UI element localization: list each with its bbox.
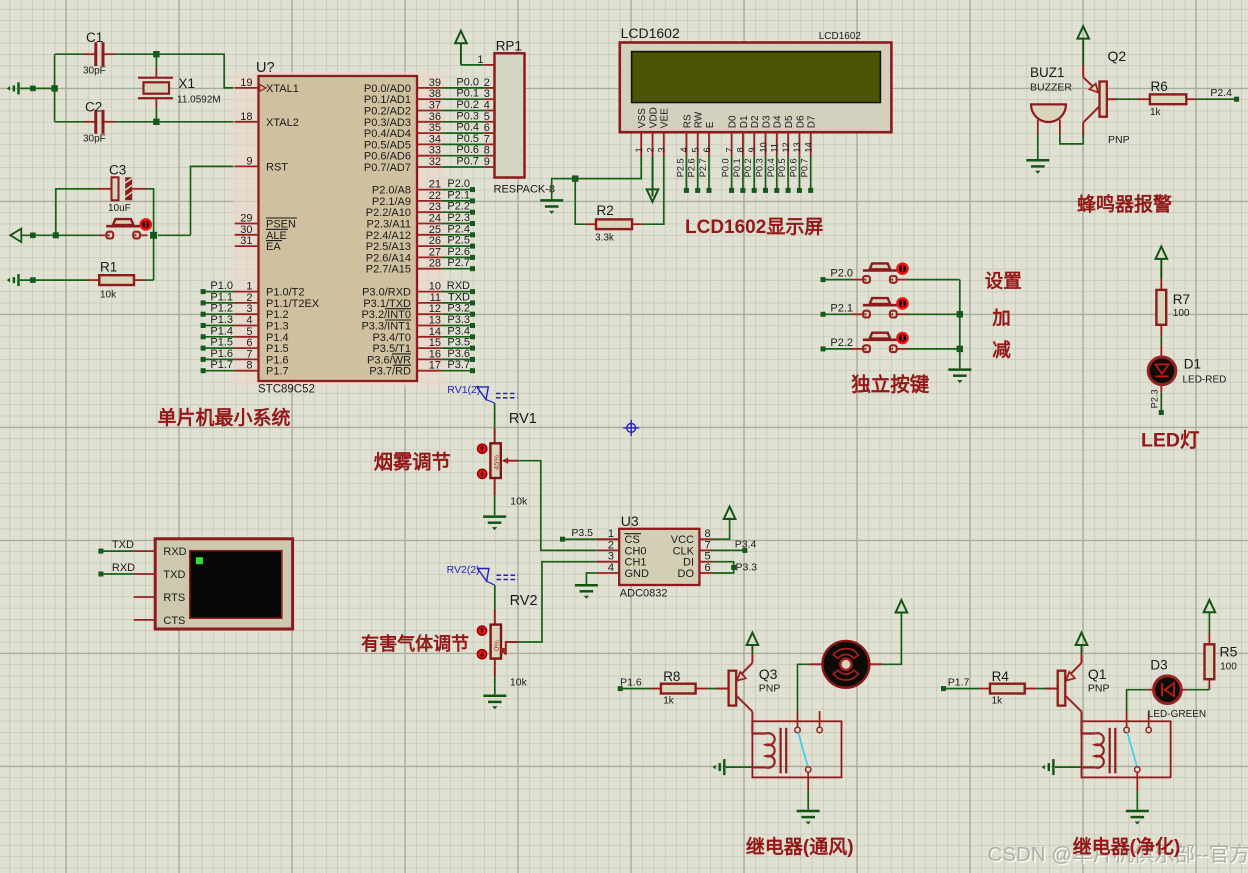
net label RXD (to terminal TXD) xyxy=(98,562,135,576)
svg-text:LCD1602: LCD1602 xyxy=(819,31,862,42)
svg-text:P1.7: P1.7 xyxy=(210,359,233,371)
svg-text:DI: DI xyxy=(683,557,694,569)
svg-text:D3: D3 xyxy=(1150,657,1167,672)
label (set) xyxy=(985,271,1022,292)
svg-text:P3.1/TXD: P3.1/TXD xyxy=(363,298,411,310)
svg-text:31: 31 xyxy=(240,235,252,247)
svg-text:P2.5: P2.5 xyxy=(675,158,685,177)
watermark CSDN xyxy=(988,843,1248,868)
wire xyxy=(707,688,717,690)
svg-text:10k: 10k xyxy=(100,290,117,301)
svg-text:7: 7 xyxy=(705,539,711,551)
ground (RV1) xyxy=(483,517,506,531)
wire xyxy=(1160,336,1162,345)
virtual terminal body xyxy=(155,539,292,629)
wire (D3 to R5) xyxy=(1187,689,1209,691)
wire xyxy=(55,51,235,88)
terminal pin names and stubs xyxy=(134,546,187,627)
svg-text:P1.6: P1.6 xyxy=(210,348,233,360)
terminal (default, left arrow) xyxy=(10,229,21,242)
svg-text:P2.3: P2.3 xyxy=(447,212,470,224)
capacitor C1 xyxy=(83,30,115,77)
net label P3.5 xyxy=(560,527,596,542)
resistor R5 100 xyxy=(1205,633,1238,690)
svg-text:P1.2: P1.2 xyxy=(210,303,233,315)
svg-text:25: 25 xyxy=(429,224,441,236)
wire xyxy=(51,54,57,122)
power +5V (above R5) xyxy=(1204,600,1216,612)
mcu left pin names xyxy=(266,83,320,378)
svg-text:P0.4: P0.4 xyxy=(766,158,776,177)
svg-text:D2: D2 xyxy=(750,115,761,128)
svg-text:P0.7: P0.7 xyxy=(800,158,810,177)
transistor Q3 PNP xyxy=(717,654,781,721)
svg-text:2: 2 xyxy=(645,147,655,152)
svg-text:RP1: RP1 xyxy=(496,39,522,54)
svg-text:10: 10 xyxy=(429,281,441,293)
svg-text:LCD1602: LCD1602 xyxy=(621,25,680,41)
svg-text:P0.3: P0.3 xyxy=(755,158,765,177)
svg-text:E: E xyxy=(705,121,716,128)
wire (motor right to +5V) xyxy=(882,612,901,664)
svg-text:6: 6 xyxy=(246,337,252,349)
svg-text:32: 32 xyxy=(429,156,441,168)
lcd control net labels P2.5 P2.6 P2.7 xyxy=(675,157,711,193)
svg-text:34: 34 xyxy=(429,133,441,145)
wire xyxy=(155,54,157,122)
svg-text:P0.5: P0.5 xyxy=(777,158,787,177)
svg-text:RESPACK-8: RESPACK-8 xyxy=(494,184,556,196)
svg-text:P1.2: P1.2 xyxy=(266,309,289,321)
svg-text:P3.2/INT0: P3.2/INT0 xyxy=(361,309,411,321)
wire xyxy=(726,766,753,768)
adc pin names xyxy=(625,534,695,580)
wire xyxy=(494,676,496,694)
svg-text:GND: GND xyxy=(625,568,650,580)
ground (left of C1/C2) xyxy=(7,82,19,94)
svg-text:P1.4: P1.4 xyxy=(210,325,233,337)
svg-text:D4: D4 xyxy=(773,115,784,128)
svg-text:P0.1/AD1: P0.1/AD1 xyxy=(364,94,411,106)
net label P3.4 (CLK) xyxy=(713,538,757,553)
svg-text:5: 5 xyxy=(705,551,711,563)
svg-text:38: 38 xyxy=(429,88,441,100)
resistor R4 1k xyxy=(980,669,1036,707)
svg-text:U3: U3 xyxy=(621,513,639,529)
svg-text:33: 33 xyxy=(429,145,441,157)
svg-text:5: 5 xyxy=(246,326,252,338)
svg-text:D0: D0 xyxy=(728,115,739,128)
svg-text:10uF: 10uF xyxy=(108,203,131,214)
svg-text:P1.1/T2EX: P1.1/T2EX xyxy=(266,298,320,310)
svg-text:继电器(通风): 继电器(通风) xyxy=(746,835,854,858)
svg-text:P1.7: P1.7 xyxy=(266,366,289,378)
svg-text:RTS: RTS xyxy=(163,592,185,604)
resistor R2 3.3k xyxy=(586,203,643,244)
svg-text:6: 6 xyxy=(705,562,711,574)
svg-text:LED-GREEN: LED-GREEN xyxy=(1148,709,1206,720)
svg-text:ADC0832: ADC0832 xyxy=(620,588,668,600)
svg-text:11: 11 xyxy=(430,292,441,304)
net labels P3 port (RXD TXD P3.2-P3.7) xyxy=(441,280,475,373)
buzzer BUZ1 xyxy=(1030,65,1072,134)
net label P2.3 xyxy=(1150,389,1164,415)
svg-text:P3.7/RD: P3.7/RD xyxy=(369,366,411,378)
svg-text:VSS: VSS xyxy=(637,108,648,128)
node (junction at ground wire) xyxy=(30,86,36,92)
push button K2 xyxy=(851,298,909,317)
svg-text:PNP: PNP xyxy=(759,682,781,694)
mcu U? STC89C52 body xyxy=(256,60,417,395)
svg-text:6: 6 xyxy=(484,122,490,134)
wire (VSS pin 1 to ground) xyxy=(552,157,642,200)
svg-text:D5: D5 xyxy=(784,115,795,128)
label (plus) xyxy=(991,307,1011,328)
wire xyxy=(145,279,154,281)
svg-text:10: 10 xyxy=(758,142,768,152)
label (independent keys) xyxy=(851,373,930,396)
svg-text:30pF: 30pF xyxy=(83,133,106,144)
svg-text:P2.0: P2.0 xyxy=(830,268,853,280)
svg-text:11: 11 xyxy=(770,143,780,153)
svg-text:P3.5: P3.5 xyxy=(571,527,593,539)
svg-text:35: 35 xyxy=(429,122,441,134)
svg-text:8: 8 xyxy=(246,360,252,372)
svg-text:P0.3/AD3: P0.3/AD3 xyxy=(364,117,411,129)
wire xyxy=(146,189,157,280)
potentiometer RV2 10k xyxy=(477,593,537,688)
svg-text:RXD: RXD xyxy=(163,546,186,558)
mcu right pin names xyxy=(361,83,411,378)
svg-text:有害气体调节: 有害气体调节 xyxy=(361,633,469,654)
svg-text:7: 7 xyxy=(246,348,252,360)
svg-text:10k: 10k xyxy=(510,676,528,688)
svg-text:PNP: PNP xyxy=(1108,134,1130,146)
svg-text:C2: C2 xyxy=(85,100,102,115)
resistor R6 1k xyxy=(1138,79,1196,118)
svg-text:BUZZER: BUZZER xyxy=(1030,82,1072,94)
svg-text:P0.1: P0.1 xyxy=(732,158,742,177)
wire (relay2 common to D3) xyxy=(1127,690,1148,712)
net label TXD (to terminal RXD) xyxy=(98,539,134,553)
svg-text:1: 1 xyxy=(246,281,252,293)
power +5V (motor) xyxy=(896,600,908,612)
svg-text:P0.7: P0.7 xyxy=(456,156,479,168)
svg-text:加: 加 xyxy=(991,307,1011,328)
svg-text:RXD: RXD xyxy=(112,562,135,574)
svg-text:28: 28 xyxy=(429,258,441,270)
svg-text:P2.6: P2.6 xyxy=(447,246,470,258)
wire (relay2 pole to ground) xyxy=(1136,791,1138,810)
svg-text:26: 26 xyxy=(429,235,441,247)
ground (LCD VSS) xyxy=(540,200,563,214)
wire xyxy=(1037,134,1039,159)
svg-text:6: 6 xyxy=(702,147,712,152)
svg-text:P1.0: P1.0 xyxy=(210,280,233,292)
net label P2.0 (button) xyxy=(821,268,854,283)
svg-text:P2.3/A11: P2.3/A11 xyxy=(367,219,411,231)
wire (relay1 pole to ground) xyxy=(807,791,809,810)
svg-text:R5: R5 xyxy=(1220,644,1238,660)
svg-text:1: 1 xyxy=(477,54,483,66)
svg-text:23: 23 xyxy=(429,201,441,213)
svg-text:RV1: RV1 xyxy=(509,411,537,427)
power +5V (above RP1) xyxy=(455,31,467,65)
svg-text:R7: R7 xyxy=(1173,292,1190,307)
svg-text:4: 4 xyxy=(484,100,490,112)
svg-text:Q2: Q2 xyxy=(1108,48,1127,64)
potentiometer RV1 10k xyxy=(478,411,537,508)
label (minus) xyxy=(992,340,1011,361)
ground (relay2 coil) xyxy=(1042,759,1054,775)
relay RL1 (fan) xyxy=(752,711,842,790)
svg-text:P0.2/AD2: P0.2/AD2 xyxy=(364,106,411,118)
svg-text:100: 100 xyxy=(1220,662,1237,673)
wire (pin1) xyxy=(461,64,484,66)
transistor Q1 PNP xyxy=(1046,654,1110,721)
svg-text:39: 39 xyxy=(429,77,441,89)
net labels P1.0-P1.7 (left) xyxy=(201,280,235,373)
svg-text:P0.0: P0.0 xyxy=(456,76,479,88)
svg-text:RST: RST xyxy=(266,161,288,173)
resistor R1 10k xyxy=(89,260,145,301)
svg-text:XTAL1: XTAL1 xyxy=(266,83,299,95)
svg-text:P2.3: P2.3 xyxy=(1150,389,1160,408)
svg-text:LED-RED: LED-RED xyxy=(1183,375,1227,386)
svg-text:R4: R4 xyxy=(992,669,1010,684)
svg-text:P3.3: P3.3 xyxy=(736,561,758,573)
svg-text:CLK: CLK xyxy=(673,545,695,557)
svg-text:独立按键: 独立按键 xyxy=(851,373,930,396)
svg-text:VEE: VEE xyxy=(660,108,671,128)
svg-text:13: 13 xyxy=(792,142,802,152)
wire (Q2 base to R6) xyxy=(1107,98,1138,100)
wire xyxy=(20,87,55,89)
wire (RV1 wiper to ADC CH0) xyxy=(518,461,596,551)
svg-text:P2.1: P2.1 xyxy=(830,302,853,314)
svg-text:14: 14 xyxy=(429,326,441,338)
crystal X1 xyxy=(138,68,221,108)
svg-text:P3.4/T0: P3.4/T0 xyxy=(372,332,411,344)
origin marker xyxy=(623,420,639,436)
wire (RV2 wiper to ADC CH1) xyxy=(518,562,596,642)
net label P2.1 (button) xyxy=(821,302,854,317)
svg-text:RV2: RV2 xyxy=(510,593,538,609)
wire xyxy=(907,348,960,350)
svg-text:2: 2 xyxy=(608,539,614,551)
ground (buzzer) xyxy=(1026,160,1049,174)
svg-text:1k: 1k xyxy=(1150,107,1162,118)
svg-text:P3.2: P3.2 xyxy=(447,303,470,315)
svg-text:EA: EA xyxy=(266,241,281,253)
wire (reset node to RST) xyxy=(158,166,235,235)
wire xyxy=(494,496,496,516)
resistor R8 1k xyxy=(651,669,707,707)
svg-text:PNP: PNP xyxy=(1088,682,1110,694)
svg-text:3: 3 xyxy=(608,551,614,563)
svg-text:P2.2: P2.2 xyxy=(447,201,470,213)
svg-text:P2.2: P2.2 xyxy=(830,337,853,349)
wire xyxy=(907,279,960,281)
svg-text:CS: CS xyxy=(625,534,640,546)
svg-text:P0.5/AD5: P0.5/AD5 xyxy=(364,139,411,151)
svg-text:P2.6: P2.6 xyxy=(687,158,697,177)
ground (buttons) xyxy=(948,370,971,384)
label (LED lamp) xyxy=(1141,430,1200,452)
svg-text:D1: D1 xyxy=(1184,357,1201,372)
power +5V (above Q1) xyxy=(1076,633,1088,654)
svg-text:P0.2: P0.2 xyxy=(743,158,753,177)
wire xyxy=(1208,612,1210,633)
svg-text:30pF: 30pF xyxy=(83,66,106,77)
svg-text:烟雾调节: 烟雾调节 xyxy=(374,451,451,474)
svg-text:P0.7/AD7: P0.7/AD7 xyxy=(364,162,411,174)
svg-text:16: 16 xyxy=(429,348,441,360)
net label P2.4 xyxy=(1196,87,1239,102)
svg-text:RV1(2): RV1(2) xyxy=(447,384,480,396)
svg-text:45%: 45% xyxy=(492,455,501,470)
svg-text:Q3: Q3 xyxy=(759,666,778,682)
label (MCU minimal system) xyxy=(158,406,291,429)
svg-text:PSEN: PSEN xyxy=(266,219,296,231)
label (smoke adjust) xyxy=(374,451,451,474)
svg-text:P0.6/AD6: P0.6/AD6 xyxy=(364,151,411,163)
svg-text:LED灯: LED灯 xyxy=(1141,430,1200,452)
svg-text:STC89C52: STC89C52 xyxy=(258,383,315,395)
svg-text:P3.4: P3.4 xyxy=(735,538,757,550)
net label P3.3 (DI DO) xyxy=(713,561,757,573)
svg-text:P3.5/T1: P3.5/T1 xyxy=(372,343,411,355)
svg-text:10k: 10k xyxy=(510,496,528,508)
wire xyxy=(20,277,89,283)
motor (fan) xyxy=(810,641,883,688)
svg-text:P0.0: P0.0 xyxy=(721,158,731,177)
svg-text:Q1: Q1 xyxy=(1088,666,1107,682)
respack RP1 xyxy=(477,39,555,196)
svg-text:1k: 1k xyxy=(663,696,675,707)
svg-text:P1.1: P1.1 xyxy=(210,291,233,303)
svg-text:P2.4/A12: P2.4/A12 xyxy=(366,230,411,242)
svg-text:3: 3 xyxy=(484,88,490,100)
svg-text:P2.0/A8: P2.0/A8 xyxy=(372,185,411,197)
push button K1 xyxy=(851,263,909,282)
svg-text:D7: D7 xyxy=(807,115,818,128)
net label P1.6 xyxy=(618,677,651,692)
net flag RV1(2) xyxy=(447,384,517,403)
adc U3 ADC0832 body xyxy=(619,513,699,600)
svg-text:0%: 0% xyxy=(492,640,501,651)
svg-text:18: 18 xyxy=(240,111,252,123)
svg-text:减: 减 xyxy=(992,340,1011,361)
svg-text:5: 5 xyxy=(691,147,701,152)
label (harmful gas adjust) xyxy=(361,633,469,654)
net labels P2.0-P2.7 (right) xyxy=(441,178,475,271)
ground (left of R1) xyxy=(7,274,19,286)
svg-text:4: 4 xyxy=(608,562,614,574)
label (relay - purification) xyxy=(1073,835,1181,858)
svg-text:P1.3: P1.3 xyxy=(210,314,233,326)
svg-text:P1.5: P1.5 xyxy=(210,337,233,349)
transistor Q2 PNP xyxy=(1083,48,1129,146)
power +5V (above Q3) xyxy=(747,633,759,654)
svg-text:37: 37 xyxy=(429,100,441,112)
svg-text:8: 8 xyxy=(705,528,711,540)
svg-text:P0.3: P0.3 xyxy=(456,110,479,122)
svg-text:P2.2/A10: P2.2/A10 xyxy=(366,207,411,219)
svg-text:19: 19 xyxy=(240,77,252,89)
svg-text:VDD: VDD xyxy=(648,107,659,128)
svg-text:P0.2: P0.2 xyxy=(456,99,479,111)
svg-text:单片机最小系统: 单片机最小系统 xyxy=(158,406,291,429)
svg-text:8: 8 xyxy=(484,145,490,157)
svg-text:R1: R1 xyxy=(100,260,117,275)
svg-text:29: 29 xyxy=(240,213,252,225)
svg-text:8: 8 xyxy=(736,147,746,152)
svg-text:P3.0/RXD: P3.0/RXD xyxy=(362,287,411,299)
svg-text:D3: D3 xyxy=(761,115,772,128)
wire xyxy=(494,585,496,609)
svg-text:D6: D6 xyxy=(795,115,806,128)
svg-text:R2: R2 xyxy=(597,203,614,218)
power down arrow (LCD VDD) xyxy=(647,157,659,202)
svg-text:P1.6: P1.6 xyxy=(266,354,289,366)
svg-text:1: 1 xyxy=(608,528,614,540)
svg-text:P3.5: P3.5 xyxy=(447,337,470,349)
svg-text:P2.5: P2.5 xyxy=(447,235,470,247)
svg-text:P3.6/WR: P3.6/WR xyxy=(367,354,411,366)
svg-text:C1: C1 xyxy=(86,30,103,45)
ground (relay1 coil) xyxy=(713,759,725,775)
push button K3 xyxy=(851,333,909,352)
svg-text:5: 5 xyxy=(484,111,490,123)
svg-text:CH0: CH0 xyxy=(625,545,647,557)
adc pin stubs and numbers xyxy=(596,528,713,574)
svg-text:P3.6: P3.6 xyxy=(447,348,470,360)
net label P1.7 xyxy=(941,677,980,692)
svg-text:P2.5/A13: P2.5/A13 xyxy=(366,241,411,253)
svg-text:P1.0/T2: P1.0/T2 xyxy=(266,287,305,299)
svg-text:CH1: CH1 xyxy=(625,557,647,569)
svg-text:9: 9 xyxy=(484,156,490,168)
svg-text:P1.5: P1.5 xyxy=(266,343,289,355)
wire (button common bus) xyxy=(957,280,963,369)
svg-text:3: 3 xyxy=(246,303,252,315)
svg-text:LCD1602显示屏: LCD1602显示屏 xyxy=(685,216,823,238)
svg-text:P1.7: P1.7 xyxy=(948,677,970,689)
capacitor C2 xyxy=(83,100,115,145)
svg-text:P2.0: P2.0 xyxy=(447,178,470,190)
svg-text:P1.3: P1.3 xyxy=(266,321,289,333)
svg-text:P0.4/AD4: P0.4/AD4 xyxy=(364,128,411,140)
svg-text:P2.1: P2.1 xyxy=(447,189,470,201)
svg-text:D1: D1 xyxy=(739,115,750,128)
relay RL2 (purify) xyxy=(1081,711,1171,790)
svg-text:30: 30 xyxy=(240,224,252,236)
svg-text:RW: RW xyxy=(694,111,705,128)
led D3 LED-GREEN xyxy=(1148,657,1206,720)
svg-text:P1.6: P1.6 xyxy=(620,677,642,689)
svg-text:P0.4: P0.4 xyxy=(456,122,479,134)
svg-text:1k: 1k xyxy=(992,696,1004,707)
svg-text:P2.7: P2.7 xyxy=(447,257,470,269)
capacitor C3 (polarized) xyxy=(98,163,146,215)
net label P2.2 (button) xyxy=(821,337,854,352)
wire (VEE to R2) xyxy=(642,157,663,225)
svg-text:XTAL2: XTAL2 xyxy=(266,117,299,129)
svg-text:CTS: CTS xyxy=(163,615,185,627)
svg-text:36: 36 xyxy=(429,111,441,123)
svg-text:100: 100 xyxy=(1173,308,1190,319)
